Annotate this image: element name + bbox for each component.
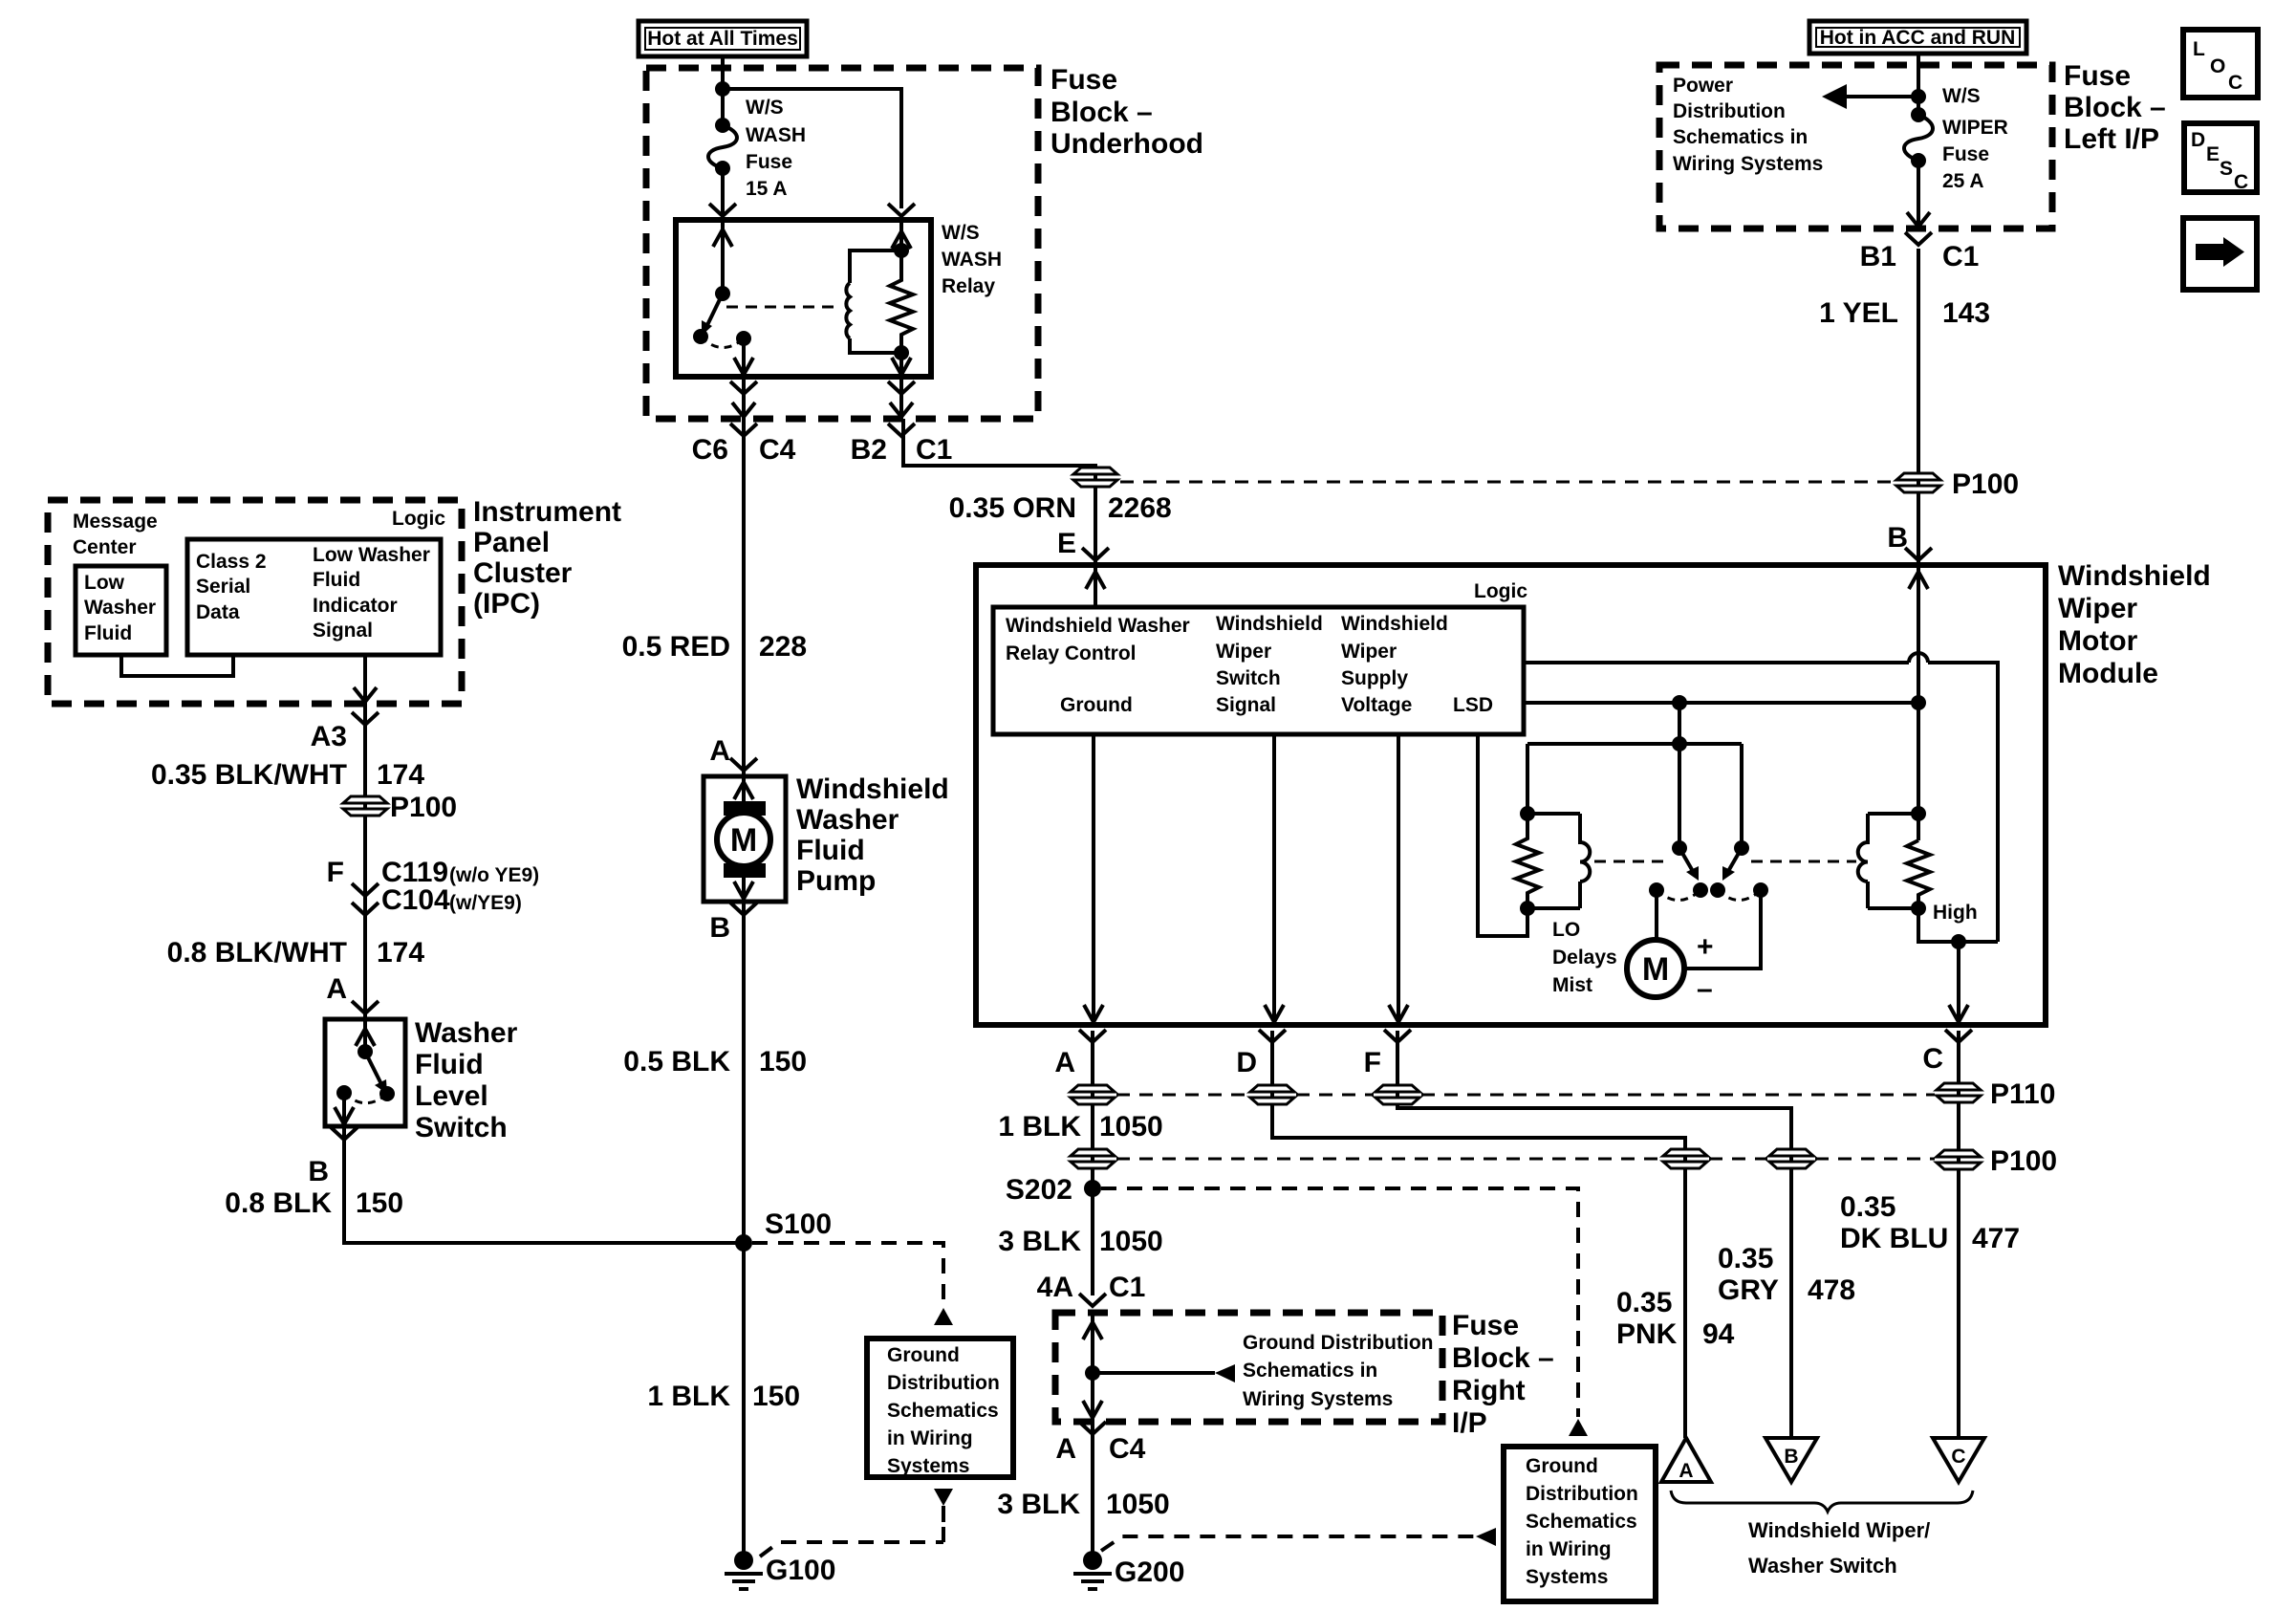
wire 0.35 BLK/WHT 174 <box>363 704 367 1019</box>
svg-text:Module: Module <box>2058 658 2158 689</box>
svg-text:C4: C4 <box>1109 1433 1146 1465</box>
svg-text:B: B <box>1784 1446 1798 1468</box>
svg-text:477: 477 <box>1972 1223 2020 1254</box>
svg-text:0.35 BLK/WHT: 0.35 BLK/WHT <box>151 759 347 791</box>
svg-text:High: High <box>1933 902 1978 924</box>
relay switch leg <box>721 220 725 294</box>
svg-text:P100: P100 <box>1990 1145 2057 1177</box>
svg-text:3 BLK: 3 BLK <box>998 1226 1081 1257</box>
dashed box: Fuse Block - Left I/P <box>1659 65 2052 229</box>
wire chevron into module <box>1905 548 1932 560</box>
wire A (1 BLK 1050) <box>1091 1031 1094 1295</box>
dashed actuation line relay <box>726 306 835 309</box>
logic box <box>993 607 1524 734</box>
svg-text:0.35 ORN: 0.35 ORN <box>949 492 1076 524</box>
dashed arc park left <box>1657 890 1700 901</box>
svg-text:C6: C6 <box>692 434 728 466</box>
svg-text:Logic: Logic <box>1474 580 1527 602</box>
svg-text:Schematics: Schematics <box>1526 1511 1637 1533</box>
box Ground Distribution Schematics in Wiring Systems (left) <box>867 1339 1013 1477</box>
svg-text:25 A: 25 A <box>1942 170 1984 192</box>
svg-text:0.8 BLK/WHT: 0.8 BLK/WHT <box>167 937 347 969</box>
svg-text:Indicator: Indicator <box>313 595 398 617</box>
svg-text:A: A <box>1679 1460 1693 1482</box>
box Low Washer Fluid (message center) <box>76 566 166 655</box>
wire fuse to box edge <box>1917 161 1920 229</box>
svg-text:Block –: Block – <box>1051 97 1153 128</box>
wire hop over B supply <box>1909 653 1928 663</box>
svg-text:Switch: Switch <box>1216 667 1281 689</box>
park switch arm left <box>1679 848 1694 873</box>
svg-text:WIPER: WIPER <box>1942 117 2008 139</box>
low speed coil + resistor pair <box>1520 806 1535 821</box>
svg-text:S202: S202 <box>1006 1174 1072 1206</box>
svg-text:B1: B1 <box>1860 241 1896 272</box>
dashed net S202 to ground distribution box <box>1101 1188 1578 1417</box>
svg-text:Cluster: Cluster <box>473 557 573 589</box>
svg-text:Distribution: Distribution <box>1526 1483 1638 1505</box>
svg-text:GRY: GRY <box>1718 1274 1779 1306</box>
svg-text:G200: G200 <box>1115 1557 1184 1588</box>
label box "Hot at All Times" <box>639 21 807 56</box>
svg-text:94: 94 <box>1702 1318 1735 1350</box>
svg-text:Wiper: Wiper <box>2058 593 2137 624</box>
connector break C119/C104 double chevron <box>352 883 379 896</box>
svg-text:Fuse: Fuse <box>1942 143 1989 165</box>
svg-text:B2: B2 <box>851 434 887 466</box>
B supply wire inside module <box>1917 565 1920 840</box>
dashed actuation line right <box>1751 860 1856 863</box>
svg-text:PNK: PNK <box>1616 1318 1678 1350</box>
svg-text:174: 174 <box>377 759 424 791</box>
svg-text:174: 174 <box>377 937 424 969</box>
svg-text:1050: 1050 <box>1106 1489 1170 1520</box>
svg-text:Level: Level <box>415 1080 488 1112</box>
svg-text:3 BLK: 3 BLK <box>997 1489 1080 1520</box>
park switch contacts <box>1649 882 1664 898</box>
svg-text:Windshield Wiper/: Windshield Wiper/ <box>1748 1518 1930 1542</box>
node: junction dot <box>715 81 730 97</box>
svg-text:Fluid: Fluid <box>84 622 132 644</box>
svg-text:2268: 2268 <box>1108 492 1172 524</box>
pin C chevron <box>1945 1030 1972 1042</box>
svg-text:Ground: Ground <box>887 1344 960 1366</box>
svg-text:(IPC): (IPC) <box>473 588 540 620</box>
svg-text:Power: Power <box>1673 75 1733 97</box>
svg-text:1 BLK: 1 BLK <box>647 1381 730 1412</box>
connector P100 inline <box>1896 473 1940 492</box>
svg-text:WASH: WASH <box>942 249 1002 271</box>
svg-text:Schematics: Schematics <box>887 1400 999 1422</box>
logic box pin names <box>1006 613 1493 716</box>
svg-text:Fluid: Fluid <box>313 569 360 591</box>
svg-text:B: B <box>1887 522 1908 554</box>
relay resistor <box>890 250 913 353</box>
wire coil to bottom <box>899 353 903 377</box>
svg-text:Class 2: Class 2 <box>196 551 267 573</box>
park switch pivots <box>1672 840 1687 856</box>
svg-text:A: A <box>1055 1433 1076 1465</box>
svg-text:Ground: Ground <box>1060 694 1133 716</box>
svg-text:S100: S100 <box>765 1208 832 1240</box>
svg-text:150: 150 <box>356 1187 403 1219</box>
pin chevron <box>709 204 736 216</box>
label Fuse Block - Underhood <box>1051 64 1203 160</box>
svg-text:(w/o YE9): (w/o YE9) <box>449 864 539 886</box>
svg-text:O: O <box>2210 55 2225 77</box>
svg-text:P100: P100 <box>1952 468 2019 500</box>
pump box: Windshield Washer Fluid Pump <box>704 776 786 902</box>
dashed box IPC <box>48 500 462 704</box>
svg-text:C: C <box>2228 72 2242 94</box>
node S202 <box>1084 1180 1101 1197</box>
high speed coil + resistor pair <box>1911 806 1926 821</box>
wire 0.5 BLK 150 <box>742 902 746 1560</box>
switch box: Washer Fluid Level Switch <box>325 1019 405 1126</box>
svg-text:Signal: Signal <box>1216 694 1276 716</box>
svg-text:Underhood: Underhood <box>1051 128 1203 160</box>
wiper motor M <box>1655 890 1658 940</box>
connector triangle B <box>1765 1438 1817 1482</box>
connector P100 inline (left) <box>343 796 387 816</box>
pin label A / C4 <box>1079 1422 1106 1434</box>
svg-text:Fluid: Fluid <box>415 1049 484 1080</box>
svg-text:Voltage: Voltage <box>1341 694 1412 716</box>
svg-text:W/S: W/S <box>746 97 784 119</box>
fuse W/S WIPER Fuse 25 A <box>1904 85 2008 192</box>
dashed net G100 to box <box>760 1526 943 1557</box>
wire 1 YEL 143 <box>1917 249 1920 565</box>
dashed box Fuse Block - Right I/P <box>1055 1313 1442 1422</box>
svg-text:I/P: I/P <box>1452 1407 1487 1439</box>
svg-text:Fuse: Fuse <box>746 151 792 173</box>
svg-text:Washer: Washer <box>84 597 156 619</box>
module box <box>976 565 2046 1025</box>
wire relay left exit <box>742 377 746 419</box>
label Fuse Block - Left I/P <box>2064 60 2166 155</box>
svg-text:M: M <box>1642 951 1669 988</box>
wire from Hot at All Times down <box>721 56 725 125</box>
logic output line upper (to high coil branch) <box>1524 663 1998 942</box>
reference line to ground distribution text <box>1093 1371 1215 1375</box>
svg-text:P110: P110 <box>1990 1078 2055 1110</box>
box Ground Distribution Schematics in Wiring Systems (right) <box>1504 1447 1656 1601</box>
dashed arc relay switch <box>701 337 744 348</box>
svg-text:Systems: Systems <box>887 1455 969 1477</box>
dashed connector line P100 <box>1116 1158 1935 1161</box>
svg-text:Block –: Block – <box>2064 92 2166 123</box>
wire E into logic <box>1094 565 1097 607</box>
dashed connector line P100 top <box>1120 481 1894 484</box>
svg-text:L: L <box>2193 38 2205 60</box>
svg-text:Wiring Systems: Wiring Systems <box>1243 1388 1393 1410</box>
node junction dot <box>1911 89 1926 104</box>
wire LSD pin <box>1478 734 1527 936</box>
svg-text:Ground Distribution: Ground Distribution <box>1243 1332 1433 1354</box>
svg-text:W/S: W/S <box>1942 85 1981 107</box>
pin F chevron <box>1384 1030 1411 1042</box>
wire IPC output A3 <box>363 655 367 704</box>
svg-text:1050: 1050 <box>1099 1111 1163 1143</box>
svg-text:D: D <box>1236 1047 1257 1078</box>
wire 3 BLK 1050 to G200 <box>1091 1422 1094 1560</box>
svg-text:0.35: 0.35 <box>1718 1243 1773 1274</box>
relay box W/S WASH Relay <box>676 220 931 377</box>
label Windshield Wiper Motor Module <box>2058 560 2211 689</box>
ground G200 <box>1073 1551 1184 1589</box>
svg-text:Serial: Serial <box>196 576 250 598</box>
svg-text:Wiring Systems: Wiring Systems <box>1673 153 1823 175</box>
reference arrow below left ground box <box>934 1489 953 1506</box>
svg-text:Distribution: Distribution <box>887 1372 1000 1394</box>
svg-text:DK BLU: DK BLU <box>1840 1223 1948 1254</box>
wire high node to C output <box>1918 908 1998 942</box>
pin label B <box>730 903 757 915</box>
wire switch exit B <box>331 1127 357 1140</box>
svg-text:WASH: WASH <box>746 124 806 146</box>
svg-text:Right: Right <box>1452 1375 1526 1406</box>
svg-text:P100: P100 <box>390 792 457 823</box>
connector P110 grommets <box>1071 1085 1115 1104</box>
DESC box <box>2184 123 2257 193</box>
svg-text:Message: Message <box>73 511 158 533</box>
pin chevron <box>888 204 915 216</box>
svg-text:Schematics in: Schematics in <box>1673 126 1808 148</box>
svg-text:LO: LO <box>1552 919 1580 941</box>
svg-text:A: A <box>326 973 347 1005</box>
svg-text:D: D <box>2191 129 2205 151</box>
pin D chevron <box>1259 1030 1286 1042</box>
svg-text:Panel: Panel <box>473 527 550 558</box>
dashed net S100 to ground distribution box <box>752 1243 943 1306</box>
svg-text:Center: Center <box>73 536 137 558</box>
svg-text:Switch: Switch <box>415 1112 508 1143</box>
wire arrow to left (power distribution) <box>1839 95 1918 98</box>
svg-text:Fuse: Fuse <box>2064 60 2131 92</box>
dashed actuation line left <box>1594 860 1671 863</box>
svg-text:0.35: 0.35 <box>1616 1287 1672 1318</box>
svg-text:143: 143 <box>1942 297 1990 329</box>
dashed box: Fuse Block - Underhood <box>646 68 1038 419</box>
park switch arm right <box>1727 848 1742 873</box>
svg-text:Washer: Washer <box>796 804 899 836</box>
svg-text:in Wiring: in Wiring <box>1526 1538 1612 1560</box>
svg-text:+: + <box>1697 931 1714 963</box>
wire relay right exit <box>899 377 903 419</box>
svg-text:A3: A3 <box>311 721 347 752</box>
svg-text:A: A <box>1054 1047 1075 1078</box>
arrow box <box>2183 218 2257 290</box>
wire 0.8 BLK 150 <box>344 1126 744 1243</box>
wire Switch Signal pin to D <box>1272 734 1276 1025</box>
svg-text:Ground: Ground <box>1526 1455 1598 1477</box>
svg-text:Fuse: Fuse <box>1051 64 1117 96</box>
svg-text:G100: G100 <box>766 1555 835 1586</box>
svg-text:0.5 RED: 0.5 RED <box>622 631 730 663</box>
svg-text:0.8 BLK: 0.8 BLK <box>225 1187 332 1219</box>
svg-text:Hot in ACC and RUN: Hot in ACC and RUN <box>1820 27 2016 49</box>
pump motor M <box>742 776 746 803</box>
svg-text:Schematics in: Schematics in <box>1243 1360 1377 1382</box>
svg-text:1050: 1050 <box>1099 1226 1163 1257</box>
ground G100 <box>725 1551 835 1589</box>
relay coil <box>846 250 901 353</box>
svg-text:Instrument: Instrument <box>473 496 621 528</box>
svg-text:0.35: 0.35 <box>1840 1191 1895 1223</box>
svg-text:Relay: Relay <box>942 275 995 297</box>
svg-text:C1: C1 <box>916 434 952 466</box>
svg-text:Windshield: Windshield <box>2058 560 2211 592</box>
svg-text:M: M <box>730 822 757 859</box>
box Class 2 Serial Data / Low Washer Fluid Indicator Signal <box>187 539 441 655</box>
svg-text:C1: C1 <box>1109 1272 1145 1303</box>
svg-text:Mist: Mist <box>1552 974 1592 996</box>
coil (high) <box>1858 814 1868 908</box>
wire 0.5 RED 228 <box>742 419 746 776</box>
brace windshield wiper/washer switch <box>1671 1491 1973 1512</box>
svg-text:478: 478 <box>1808 1274 1855 1306</box>
resistor (low) <box>1516 814 1539 908</box>
svg-text:B: B <box>709 912 730 944</box>
svg-text:Windshield Washer: Windshield Washer <box>1006 615 1190 637</box>
svg-text:Logic: Logic <box>392 508 445 530</box>
svg-text:E: E <box>1057 528 1076 559</box>
text Power Distribution Schematics in Wiring Systems <box>1673 75 1823 175</box>
svg-text:228: 228 <box>759 631 807 663</box>
svg-text:Windshield: Windshield <box>796 773 949 805</box>
svg-text:C: C <box>1922 1043 1943 1075</box>
svg-text:Wiper: Wiper <box>1341 641 1397 663</box>
svg-text:150: 150 <box>752 1381 800 1412</box>
svg-text:C104: C104 <box>381 884 450 916</box>
svg-text:E: E <box>2206 143 2220 165</box>
svg-text:W/S: W/S <box>942 222 980 244</box>
svg-text:Pump: Pump <box>796 865 876 897</box>
svg-text:B: B <box>308 1156 329 1187</box>
park switch feed line <box>1527 703 1742 848</box>
svg-text:Wiper: Wiper <box>1216 641 1271 663</box>
svg-text:Windshield: Windshield <box>1341 613 1448 635</box>
coil (low) <box>1580 814 1590 908</box>
dashed net G200 to ground box <box>1101 1536 1474 1551</box>
wire fuse to relay <box>721 168 725 220</box>
svg-text:Fluid: Fluid <box>796 835 865 866</box>
svg-text:Block –: Block – <box>1452 1342 1554 1374</box>
wire through fuse block right <box>1091 1313 1094 1422</box>
svg-text:150: 150 <box>759 1046 807 1078</box>
svg-text:C: C <box>2234 171 2248 193</box>
svg-text:Motor: Motor <box>2058 625 2138 657</box>
wire branch to relay right leg <box>723 89 901 208</box>
svg-text:Signal: Signal <box>313 620 373 642</box>
connector P100 inline (middle) <box>1073 468 1117 487</box>
svg-text:Relay Control: Relay Control <box>1006 642 1137 664</box>
svg-text:C4: C4 <box>759 434 796 466</box>
LOC box <box>2183 30 2258 98</box>
wire Supply Voltage pin to F <box>1397 734 1400 1025</box>
svg-text:Systems: Systems <box>1526 1566 1608 1588</box>
svg-text:Distribution: Distribution <box>1673 100 1786 122</box>
svg-text:Delays: Delays <box>1552 947 1617 969</box>
svg-text:F: F <box>1364 1047 1381 1078</box>
svg-text:–: – <box>1697 973 1713 1005</box>
svg-text:C1: C1 <box>1942 241 1979 272</box>
svg-text:Left I/P: Left I/P <box>2064 123 2159 155</box>
relay switch arm <box>706 294 723 327</box>
svg-text:1 YEL: 1 YEL <box>1819 297 1898 329</box>
svg-text:Windshield: Windshield <box>1216 613 1323 635</box>
svg-text:(w/YE9): (w/YE9) <box>449 892 522 914</box>
wire from Hot in ACC down <box>1917 54 1920 115</box>
svg-text:Low: Low <box>84 572 125 594</box>
label Fuse Block - Right I/P <box>1452 1310 1554 1439</box>
logic output line lower (to park switch) <box>1524 701 1918 705</box>
connector triangle C <box>1933 1438 1984 1482</box>
svg-text:Hot at All Times: Hot at All Times <box>647 28 798 50</box>
wire C (0.35 DK BLU 477) <box>1957 1031 1960 1438</box>
svg-text:Data: Data <box>196 601 240 623</box>
wire B2/C1 to module E <box>903 419 1095 565</box>
wire F <box>1397 1031 1791 1438</box>
svg-text:1 BLK: 1 BLK <box>998 1111 1081 1143</box>
switch internals <box>363 1019 367 1052</box>
relay coil branch <box>899 220 903 250</box>
dashed arc park right <box>1718 890 1761 901</box>
svg-text:4A: 4A <box>1037 1272 1073 1303</box>
svg-text:A: A <box>709 735 730 767</box>
svg-text:15 A: 15 A <box>746 178 788 200</box>
svg-text:0.5 BLK: 0.5 BLK <box>623 1046 730 1078</box>
resistor (high) <box>1907 840 1930 908</box>
wire contact to bottom <box>742 338 746 377</box>
svg-text:Low Washer: Low Washer <box>313 544 430 566</box>
svg-text:S: S <box>2220 158 2233 180</box>
svg-text:Washer: Washer <box>415 1017 518 1049</box>
pin A chevron <box>1079 1030 1106 1042</box>
connector triangle A <box>1661 1438 1711 1482</box>
svg-text:F: F <box>327 857 344 888</box>
svg-text:Supply: Supply <box>1341 667 1408 689</box>
wire D <box>1272 1031 1685 1438</box>
svg-text:LSD: LSD <box>1453 694 1493 716</box>
connector P100 grommets <box>1071 1149 1115 1168</box>
label Instrument Panel Cluster (IPC) <box>473 496 621 620</box>
svg-text:Washer Switch: Washer Switch <box>1748 1554 1897 1578</box>
svg-text:C: C <box>1951 1446 1965 1468</box>
svg-text:Fuse: Fuse <box>1452 1310 1519 1341</box>
wire Ground pin to A <box>1092 734 1095 1025</box>
fuse W/S WASH Fuse 15 A <box>708 97 806 200</box>
dashed connector line P110 <box>1116 1094 1935 1097</box>
wire link between boxes <box>121 655 233 676</box>
text Ground Distribution Schematics in Wiring Systems (middle) <box>1243 1332 1433 1410</box>
node S100 <box>735 1234 752 1252</box>
svg-text:in Wiring: in Wiring <box>887 1427 973 1449</box>
relay switch contact <box>736 331 751 346</box>
label box "Hot in ACC and RUN" <box>1809 21 2026 54</box>
